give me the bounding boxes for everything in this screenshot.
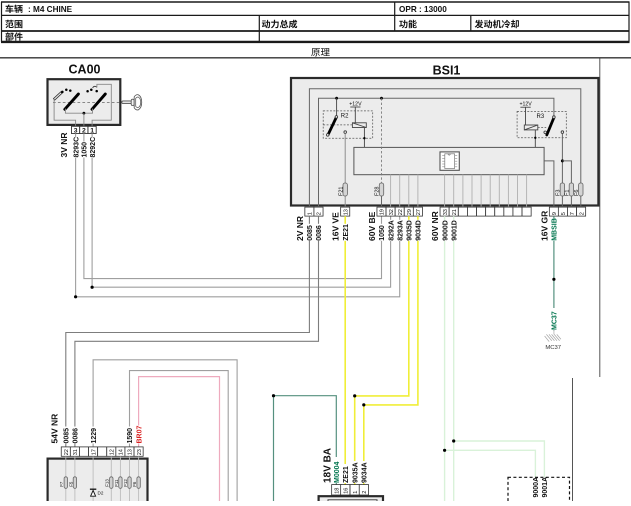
svg-text:9035A: 9035A: [352, 462, 359, 483]
svg-text:5: 5: [561, 212, 567, 215]
wire label BR07: [135, 426, 143, 444]
branch 9001A: [454, 441, 545, 477]
CA00 start return hook: [93, 86, 97, 88]
ECU output stub wires: [390, 175, 392, 207]
CA00 wire label 8293C: [72, 138, 80, 158]
BB pin 18: [332, 485, 341, 495]
header row1: vehicle label: [5, 5, 22, 14]
svg-text:9034A: 9034A: [362, 462, 369, 483]
svg-text:F11: F11: [114, 479, 119, 487]
R3 coil: [524, 125, 538, 130]
wire label 1229: [89, 427, 97, 444]
svg-text:32: 32: [389, 209, 395, 215]
PSF body: [48, 459, 148, 503]
svg-text:60V NR: 60V NR: [430, 211, 440, 241]
svg-text:1590: 1590: [127, 428, 134, 444]
R2 dashed link: [323, 124, 352, 126]
fuse F28: [379, 183, 383, 196]
svg-text:CA00: CA00: [69, 63, 101, 77]
rail junction F28: [380, 97, 383, 100]
PSF internal wires: [65, 456, 67, 501]
svg-text:18: 18: [335, 488, 341, 494]
svg-text:0085: 0085: [64, 428, 71, 444]
svg-text:1: 1: [308, 212, 314, 215]
fuse F1: [569, 183, 573, 196]
BB pin 2: [359, 485, 368, 495]
PSF pin nc: [79, 447, 88, 456]
PSF pin 23: [134, 447, 143, 456]
BSI1 pin nc: [467, 207, 476, 216]
svg-text:3: 3: [74, 127, 78, 134]
off-sheet component box (dashed): [508, 477, 570, 503]
svg-text:2: 2: [82, 127, 86, 134]
CA00 contact bracket to pin 2: [65, 109, 92, 114]
BSI1 pin nc: [504, 207, 513, 216]
svg-text:MC37: MC37: [552, 311, 559, 330]
wire R3 to fuses F3/F1: [561, 133, 563, 207]
R2 coil output wire: [363, 128, 365, 148]
BSI1 pin 22: [395, 207, 404, 216]
wire 1590 PSF.13 off-page: [130, 371, 229, 501]
svg-text:F21: F21: [338, 187, 344, 196]
wire label 1590: [126, 427, 134, 444]
wire 9035 BSI1.29 to BB.1: [355, 216, 409, 485]
svg-text:2: 2: [362, 491, 368, 494]
svg-text:D2: D2: [98, 491, 104, 496]
junction 8293: [74, 295, 77, 298]
CA00 wire label 1050: [80, 142, 88, 158]
wire label 0086: [315, 224, 323, 241]
svg-text:0085: 0085: [307, 225, 314, 241]
svg-text:2: 2: [317, 212, 323, 215]
svg-text:13: 13: [343, 209, 349, 215]
wire label 9001D: [450, 220, 458, 241]
svg-text:27: 27: [416, 209, 422, 215]
BSI1 pin 19: [377, 207, 386, 216]
wire MBSIB BSI1.9 to ground MC37: [553, 216, 555, 330]
svg-text:F3: F3: [556, 190, 562, 196]
svg-text:8292A: 8292A: [388, 220, 395, 241]
svg-text:22: 22: [64, 449, 70, 455]
svg-text:2: 2: [579, 212, 585, 215]
BSI1 internal ground wire to pin 9: [544, 161, 554, 207]
BB pin 1: [350, 485, 359, 495]
svg-text:22: 22: [398, 209, 404, 215]
PSF fuse F7: [64, 477, 67, 489]
svg-text:F28: F28: [375, 187, 381, 196]
svg-text:F6: F6: [574, 190, 580, 196]
PSF pin 12: [107, 447, 116, 456]
svg-text:8292C: 8292C: [90, 137, 97, 158]
PSF pin 31: [70, 447, 79, 456]
wire label 9000D: [441, 220, 449, 241]
PSF diode D2: [90, 488, 96, 490]
svg-text:ZE21: ZE21: [343, 466, 350, 483]
PSF fuse F6: [137, 477, 140, 489]
PSF pin 22: [61, 447, 70, 456]
wire 0085 BSI1.1 to PSF.22: [66, 216, 310, 447]
svg-text:13: 13: [128, 449, 134, 455]
svg-text:9001A: 9001A: [542, 477, 549, 498]
svg-text:33: 33: [443, 209, 449, 215]
BSI1 pin nc: [477, 207, 486, 216]
R3 coil output wire: [534, 130, 536, 148]
CA00 pin 2: [80, 126, 88, 133]
BSI1 body: [291, 78, 598, 206]
svg-text:1050: 1050: [82, 142, 89, 158]
svg-text:9001D: 9001D: [451, 220, 458, 241]
relay R3 dashed box: [517, 111, 566, 137]
fuse F6: [579, 183, 583, 196]
header table frame: [1, 2, 630, 42]
BSI1 pin nc: [495, 207, 504, 216]
R2 coil: [352, 123, 366, 128]
BSI1 pin 33: [440, 207, 449, 216]
CA00 pin 1: [88, 126, 96, 133]
fuse F21: [343, 183, 347, 196]
BSI1 pin 1: [305, 207, 314, 216]
BSI1 pin 29: [404, 207, 413, 216]
svg-text:F1: F1: [565, 190, 571, 196]
svg-text:+12V: +12V: [349, 101, 362, 107]
svg-text:23: 23: [137, 449, 143, 455]
wire 0086 BSI1.2 to PSF.31: [75, 216, 319, 447]
svg-text:F6: F6: [132, 481, 137, 487]
svg-text:+12V: +12V: [519, 102, 532, 108]
svg-text:F7: F7: [59, 481, 64, 487]
CA00 position dots left: [65, 88, 68, 91]
svg-text:BSI1: BSI1: [433, 64, 461, 78]
svg-text:F12: F12: [123, 479, 128, 487]
ECU chip icon: [440, 152, 459, 170]
BSI1 internal loop A (pin1 to F6/pin2): [309, 89, 580, 207]
CA00 position dots right: [86, 90, 89, 93]
BSI1 pin 32: [386, 207, 395, 216]
wire 8293 CA00.3 to BSI1.22: [76, 134, 400, 297]
wire R2 to fuse F21: [344, 133, 346, 207]
svg-text:14: 14: [119, 449, 125, 455]
BB pin 16: [341, 485, 350, 495]
svg-text:9034D: 9034D: [416, 220, 423, 241]
page border right upper: [599, 58, 601, 377]
svg-text:MC37: MC37: [545, 345, 561, 351]
BB body: [319, 496, 383, 503]
R3 contact arm: [547, 118, 554, 135]
svg-text:21: 21: [452, 209, 458, 215]
wire label ZE21 (BB): [342, 464, 350, 483]
BSI1 pin nc: [513, 207, 522, 216]
page rule under title: [0, 57, 631, 59]
CA00 pin 3: [72, 126, 80, 133]
splice on MBSIB: [552, 278, 555, 281]
svg-text:0086: 0086: [316, 225, 323, 241]
BSI1 pin nc: [458, 207, 467, 216]
wire label MBSIB: [550, 220, 558, 241]
wire label 9035A: [351, 461, 359, 483]
CA00 wire to pin 3: [54, 99, 76, 126]
svg-text:F13: F13: [105, 479, 110, 487]
branch 9000A: [445, 450, 536, 477]
junction M0004: [272, 394, 275, 397]
BSI1 pin 21: [449, 207, 458, 216]
wire label MC37: [550, 308, 558, 330]
BSI1 pin nc: [522, 207, 531, 216]
PSF fuse F12: [128, 477, 131, 489]
PSF fuse F13: [110, 477, 113, 489]
svg-text:29: 29: [407, 209, 413, 215]
svg-text:12: 12: [110, 449, 116, 455]
ground symbol MC37: [553, 330, 555, 334]
svg-text:BR07: BR07: [136, 425, 143, 443]
header row3: [5, 32, 22, 41]
svg-text:19: 19: [380, 209, 386, 215]
svg-text:16: 16: [344, 488, 350, 494]
BSI1 pin 27: [413, 207, 422, 216]
svg-text:2V NR: 2V NR: [295, 216, 305, 241]
PSF fuse F11: [119, 477, 122, 489]
svg-text:R2: R2: [341, 114, 349, 120]
BSI1 pin 2: [314, 207, 323, 216]
wire label 1050: [378, 224, 386, 241]
BSI1 pin 2: [577, 207, 586, 216]
BSI1 internal loop B (+12V rail pin2 to R3): [319, 98, 554, 207]
CA00 main contact arm right: [92, 94, 105, 109]
BSI1 pin 9: [549, 207, 558, 216]
wire 1229 PSF.17 off-page: [93, 360, 237, 501]
relay R2 dashed box: [323, 111, 373, 138]
wire 9001D BSI1.21: [453, 216, 455, 501]
wire label 9034D: [414, 220, 422, 241]
CA00 key symbol: [122, 95, 142, 110]
ignition switch CA00 body: [48, 79, 121, 125]
CA00 accessory contact arm (hollow): [54, 92, 63, 100]
svg-text:9000A: 9000A: [533, 477, 540, 498]
wire label 9034A: [360, 461, 368, 483]
page title 原理: [311, 48, 329, 56]
svg-text:: M4 CHINE: : M4 CHINE: [28, 5, 73, 14]
header row2: [5, 20, 22, 28]
wire label 0085 (PSF): [62, 427, 70, 444]
PSF pin 13: [125, 447, 134, 456]
svg-text:R3: R3: [537, 114, 545, 120]
wire 1050 CA00.2 to BSI1.19: [84, 134, 382, 279]
wire BR07 PSF.23 off-page: [139, 377, 220, 501]
page border right lower: [572, 378, 574, 501]
wire 8292 CA00.1 to BSI1.32: [92, 134, 391, 288]
R2 output terminal: [344, 131, 347, 134]
svg-text:9035D: 9035D: [407, 220, 414, 241]
rail junction R2: [335, 97, 338, 100]
wire ZE21 BSI1.13 to BB.16: [344, 216, 346, 485]
wire label 8292A: [387, 220, 395, 241]
PSF pin 17: [89, 447, 98, 456]
svg-text:8293A: 8293A: [397, 220, 404, 241]
BSI1 pin nc: [486, 207, 495, 216]
CA00 internal dashed axis: [53, 101, 120, 103]
svg-text:MBSIB: MBSIB: [552, 218, 559, 241]
svg-text:9: 9: [552, 212, 558, 215]
svg-text:17: 17: [91, 449, 97, 455]
svg-text:31: 31: [73, 449, 79, 455]
BSI1 pin 7: [567, 207, 576, 216]
PSF fuse F5: [73, 477, 76, 489]
R2 contact arm: [336, 98, 338, 115]
fuse F3: [560, 183, 564, 196]
svg-text:8293C: 8293C: [73, 137, 80, 158]
R3 dashed link: [538, 126, 546, 128]
PSF pin 14: [116, 447, 125, 456]
svg-text:60V BE: 60V BE: [367, 211, 377, 241]
BSI1 pin 13: [341, 207, 350, 216]
svg-text:18V BA: 18V BA: [323, 448, 334, 483]
dashed wire rail to F28: [381, 98, 383, 183]
R3 output terminal: [561, 131, 564, 134]
CA00 wire label 8292C: [88, 138, 96, 158]
svg-text:1229: 1229: [91, 428, 98, 444]
svg-text:3V NR: 3V NR: [59, 132, 69, 157]
svg-text:9000D: 9000D: [442, 220, 449, 241]
svg-text:F5: F5: [68, 481, 73, 487]
svg-text:54V NR: 54V NR: [49, 414, 59, 444]
wire label ZE21: [341, 224, 349, 241]
svg-text:M0004: M0004: [334, 461, 341, 483]
wire M0004 to BB.18: [274, 396, 337, 501]
CA00 wire loop to pin 1: [92, 84, 111, 126]
wire label M0004: [333, 457, 341, 483]
wire 9034 BSI1.27 to BB.2: [364, 216, 418, 485]
svg-text:0086: 0086: [73, 428, 80, 444]
wire label 0085: [306, 224, 314, 241]
svg-text:1050: 1050: [379, 225, 386, 241]
svg-text:16V VE: 16V VE: [331, 212, 341, 241]
svg-text:ZE21: ZE21: [343, 224, 350, 241]
svg-text:16V GR: 16V GR: [539, 211, 549, 241]
wire label 8293A: [396, 220, 404, 241]
svg-text:OPR : 13000: OPR : 13000: [399, 5, 447, 14]
wire label 0086 (PSF): [71, 427, 79, 444]
svg-text:7: 7: [570, 212, 576, 215]
CA00 main contact arm left: [65, 94, 79, 109]
PSF pin nc: [98, 447, 107, 456]
BSI1 pin 5: [558, 207, 567, 216]
junction 8292: [91, 286, 94, 289]
svg-text:1: 1: [353, 491, 359, 494]
svg-text:1: 1: [90, 127, 94, 134]
BB inner block: [328, 500, 377, 504]
wire label 9035D: [405, 220, 413, 241]
wire 9000D BSI1.33: [444, 216, 446, 501]
BSI1 ECU block: [354, 147, 544, 174]
